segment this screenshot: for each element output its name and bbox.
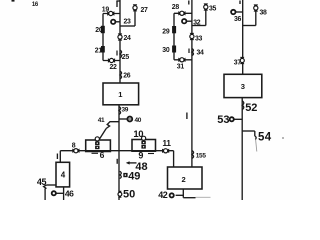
svg-text:36: 36 [234, 16, 242, 23]
svg-text:39: 39 [122, 106, 129, 113]
svg-text:41: 41 [98, 117, 105, 124]
svg-text:53: 53 [217, 114, 229, 126]
svg-text:52: 52 [245, 102, 257, 114]
svg-text:25: 25 [122, 54, 130, 61]
svg-text:21: 21 [95, 47, 103, 54]
svg-text:37: 37 [234, 60, 242, 67]
svg-text:29: 29 [162, 28, 170, 35]
svg-text:9: 9 [138, 151, 143, 161]
svg-text:16: 16 [32, 2, 39, 8]
svg-text:49: 49 [128, 170, 140, 182]
svg-text:40: 40 [135, 117, 142, 124]
svg-text:3: 3 [241, 82, 245, 91]
svg-text:34: 34 [197, 49, 205, 56]
svg-text:46: 46 [65, 188, 74, 198]
svg-text:54: 54 [258, 132, 272, 144]
svg-text:33: 33 [195, 35, 203, 42]
svg-text:28: 28 [172, 4, 180, 11]
svg-text:6: 6 [100, 150, 105, 160]
svg-text:26: 26 [123, 73, 131, 80]
svg-text:27: 27 [141, 7, 149, 14]
svg-text:8: 8 [72, 143, 76, 150]
svg-text:23: 23 [124, 18, 132, 25]
svg-text:50: 50 [123, 189, 135, 200]
svg-text:32: 32 [193, 20, 201, 27]
svg-text:24: 24 [124, 35, 132, 42]
svg-text:11: 11 [162, 138, 171, 148]
svg-text:2: 2 [182, 175, 186, 184]
svg-text:10: 10 [133, 129, 143, 140]
svg-text:155: 155 [196, 153, 207, 160]
svg-text:22: 22 [110, 64, 118, 71]
svg-text:45: 45 [37, 177, 47, 187]
svg-text:31: 31 [177, 63, 185, 70]
svg-text:20: 20 [95, 27, 103, 34]
svg-text:30: 30 [162, 47, 170, 54]
svg-text:19: 19 [102, 7, 110, 14]
svg-text:38: 38 [260, 9, 268, 16]
svg-text:42: 42 [158, 190, 168, 200]
svg-text:35: 35 [209, 6, 217, 13]
